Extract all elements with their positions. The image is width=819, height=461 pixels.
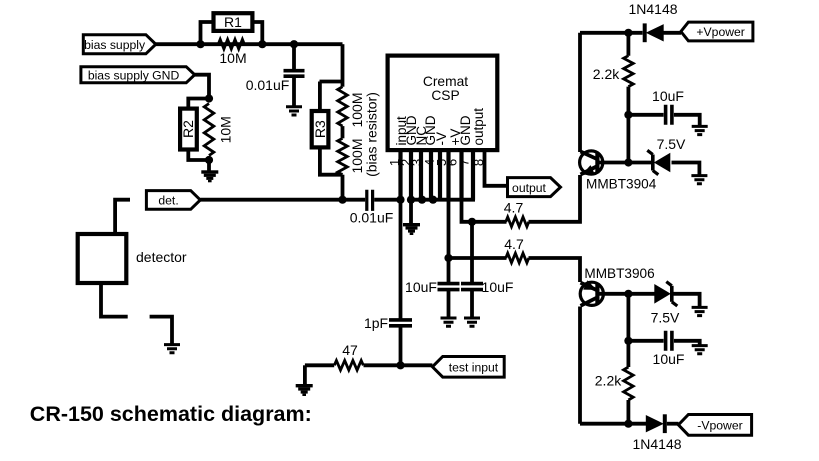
svg-text:10M: 10M [219, 50, 246, 66]
resistor R1 box outline [214, 13, 253, 31]
ground at detector [164, 345, 180, 353]
wire: 2.2k bottom lead [627, 400, 631, 424]
wire: between R3 zigzags [341, 126, 345, 138]
junction base/2.2k Q2 [624, 290, 632, 298]
svg-text:CSP: CSP [431, 88, 459, 103]
junction test/1pF [396, 361, 404, 369]
resistor R2 10M zigzag [204, 104, 214, 156]
wire: CSP ground bus [409, 198, 475, 202]
svg-text:R3: R3 [312, 120, 328, 138]
svg-text:test input: test input [449, 361, 499, 375]
wire: 4.7 upper to Q1 emitter [529, 175, 581, 222]
wire: diode to +Vpower tag [664, 31, 682, 35]
junction 10uF right tap [468, 218, 476, 226]
resistor R3 100M lower zigzag [338, 138, 348, 174]
wire: 10uF top left lead [628, 113, 663, 117]
svg-text:7.5V: 7.5V [651, 309, 680, 325]
wire: 10uF left to ground [447, 290, 451, 318]
junction 10uF bottom tap [624, 337, 632, 345]
svg-text:47: 47 [342, 342, 358, 358]
junction pin4 on bus [429, 196, 437, 204]
wire: det line right of cap [374, 198, 400, 202]
wire: R2 to ground [207, 160, 211, 171]
svg-text:+Vpower: +Vpower [696, 25, 744, 39]
wire: +Vpower rail [580, 31, 643, 35]
wire: pin2 to ground [409, 200, 413, 224]
wire: R2 box bottom lead [188, 149, 209, 160]
svg-text:detector: detector [136, 249, 187, 265]
junction node det/R3 [338, 196, 346, 204]
tag: +Vpower [681, 22, 753, 41]
junction node bias cap tap [290, 40, 298, 48]
junction node det/pin1 [396, 196, 404, 204]
svg-text:4.7: 4.7 [504, 200, 524, 216]
svg-text:1N4148: 1N4148 [628, 1, 677, 17]
zener 7.5V top [647, 150, 670, 174]
junction 2.2k top [624, 29, 632, 37]
ground 10uF bottom [692, 346, 708, 354]
svg-text:10M: 10M [218, 116, 234, 143]
wire: R1 box right lead [252, 22, 262, 43]
svg-text:output: output [471, 108, 486, 146]
diode 1N4148 bottom [646, 414, 667, 433]
capacitor 10uF right plates [461, 284, 483, 290]
wire: bias cap to ground [292, 76, 296, 106]
capacitor 10uF bottom plates [666, 331, 672, 351]
svg-text:7: 7 [457, 159, 472, 166]
svg-text:bias supply: bias supply [84, 38, 146, 52]
wire: 1pF to test line [399, 326, 403, 366]
wire: Q1 base line [600, 161, 652, 165]
capacitor 0.01uF bias plates [284, 71, 305, 77]
detector box [78, 234, 127, 283]
svg-text:CR-150 schematic diagram:: CR-150 schematic diagram: [30, 402, 312, 426]
svg-text:10uF: 10uF [405, 279, 437, 295]
wire: pin1 input down [399, 200, 403, 319]
wire: zener top to ground [672, 163, 700, 176]
tag: bias supply [83, 35, 156, 54]
wire: bias GND to R2 [195, 75, 209, 99]
svg-text:1N4148: 1N4148 [632, 436, 681, 452]
capacitor 10uF left plates [438, 284, 460, 290]
junction pin3 on bus [418, 196, 426, 204]
wire: bias cap lead [292, 44, 296, 70]
wire: bias feed down to R3 [341, 44, 345, 86]
svg-text:R1: R1 [224, 14, 242, 30]
wire: test line to ground [303, 365, 307, 384]
svg-text:bias supply GND: bias supply GND [88, 68, 180, 82]
wire: R3 top bar [320, 80, 343, 84]
wire: Q2 base line [600, 292, 656, 296]
wire: det line left of cap [200, 198, 365, 202]
transistor Q2 MMBT3906 [580, 280, 603, 306]
ground below 10uF right [464, 318, 480, 326]
pins 1-8 of CSP [401, 150, 474, 200]
resistor 4.7 lower zigzag [506, 253, 529, 263]
wire: pin6 branch down [447, 200, 451, 283]
resistor 2.2k top zigzag [624, 56, 634, 87]
wire: R3 box top lead [318, 82, 322, 112]
tag: det. [146, 191, 200, 210]
svg-text:MMBT3904: MMBT3904 [586, 177, 657, 192]
wire: pin8 output bend [485, 150, 508, 186]
wire: detector ground elbow [150, 317, 172, 345]
ground below CSP pin 2 [403, 223, 420, 235]
svg-text:Cremat: Cremat [423, 74, 468, 89]
resistor R3 100M upper zigzag [338, 87, 348, 126]
ground below 10uF left [441, 318, 457, 326]
svg-text:7.5V: 7.5V [657, 136, 686, 152]
ground zener bottom [692, 307, 708, 315]
ground below bias cap [286, 107, 302, 115]
tag: test input [432, 357, 504, 378]
junction node R1 left [196, 40, 204, 48]
resistor R3 box outline [312, 111, 329, 147]
wire: lower 4.7 line [449, 256, 507, 260]
wire: zener bottom to ground [674, 294, 700, 307]
ground zener top [691, 176, 707, 184]
resistor R2 box outline [180, 109, 197, 150]
wire: diode to -Vpower tag [667, 422, 679, 426]
wire: 10uF right branch [470, 222, 474, 283]
svg-text:MMBT3906: MMBT3906 [584, 266, 654, 281]
wire: 2.2k bottom top lead [627, 294, 631, 367]
svg-text:10uF: 10uF [482, 279, 514, 295]
svg-text:0.01uF: 0.01uF [350, 210, 394, 226]
wire: Q1 collector [578, 33, 582, 152]
svg-text:R2: R2 [180, 120, 196, 138]
wire: Q2 collector [578, 307, 582, 424]
ground below R2 [201, 170, 218, 182]
ground at test input [296, 384, 313, 396]
wire: R1 box left lead [201, 22, 215, 43]
tag: output [508, 178, 561, 197]
wire: test line left [305, 363, 334, 367]
junction pin2 on bus [407, 196, 415, 204]
op-amp U1 Cremat CSP box [388, 56, 498, 151]
capacitor 0.01uF coupling plates [367, 190, 373, 211]
wire: R2 box top lead [188, 99, 209, 110]
svg-text:10uF: 10uF [653, 351, 685, 367]
wire: 10uF bottom left lead [628, 339, 663, 343]
junction node R2 top [205, 94, 213, 102]
ground 10uF top [692, 126, 708, 134]
svg-text:0.01uF: 0.01uF [246, 77, 290, 93]
wire: -Vpower rail [580, 422, 647, 426]
resistor 4.7 upper zigzag [506, 217, 529, 227]
wire: detector top lead [115, 200, 130, 233]
junction lower 4.7 tap [444, 254, 452, 262]
junction node R1 right [258, 40, 266, 48]
wire: R3 to det line [341, 175, 345, 200]
junction base/2.2k Q1 [624, 158, 632, 166]
diode 1N4148 top [643, 23, 664, 42]
wire: 10uF top right lead [674, 115, 700, 126]
wire: R3 box bottom lead [320, 147, 343, 174]
tag: -Vpower [678, 415, 751, 436]
resistor R1 10M zigzag [218, 39, 244, 49]
wire: 4.7 lower to Q2 emitter [529, 258, 581, 282]
wire: detector bottom lead [101, 283, 128, 317]
wire: 2.2k top leads [627, 33, 631, 115]
svg-text:(bias resistor): (bias resistor) [364, 92, 380, 177]
svg-text:det.: det. [158, 194, 178, 208]
wire: 10uF bottom right lead [674, 341, 700, 345]
svg-text:10uF: 10uF [652, 88, 684, 104]
wire: test line right [364, 363, 433, 367]
junction 2.2k/10uF [624, 111, 632, 119]
svg-text:-V: -V [434, 132, 449, 146]
tag: bias supply GND [81, 67, 195, 83]
wire: 2.2k to Q1 base [627, 115, 631, 163]
resistor 2.2k bottom zigzag [624, 367, 634, 400]
resistor 47 zigzag [334, 361, 363, 371]
wire: bias supply line [156, 42, 343, 46]
svg-text:2.2k: 2.2k [595, 373, 622, 389]
transistor Q1 MMBT3904 [580, 151, 603, 175]
svg-text:-Vpower: -Vpower [697, 419, 742, 433]
wire: 10uF right to ground [470, 290, 474, 318]
svg-text:4.7: 4.7 [504, 236, 524, 252]
zener 7.5V bottom [654, 282, 677, 306]
junction node R2 bottom [205, 156, 213, 164]
junction 2.2k/-V rail [624, 420, 632, 428]
capacitor 10uF top plates [666, 105, 672, 125]
wire: +V pin branch down [462, 200, 507, 222]
svg-text:2.2k: 2.2k [593, 66, 620, 82]
svg-text:output: output [512, 181, 546, 195]
svg-text:1pF: 1pF [364, 315, 388, 331]
capacitor 1pF plates [389, 320, 412, 326]
